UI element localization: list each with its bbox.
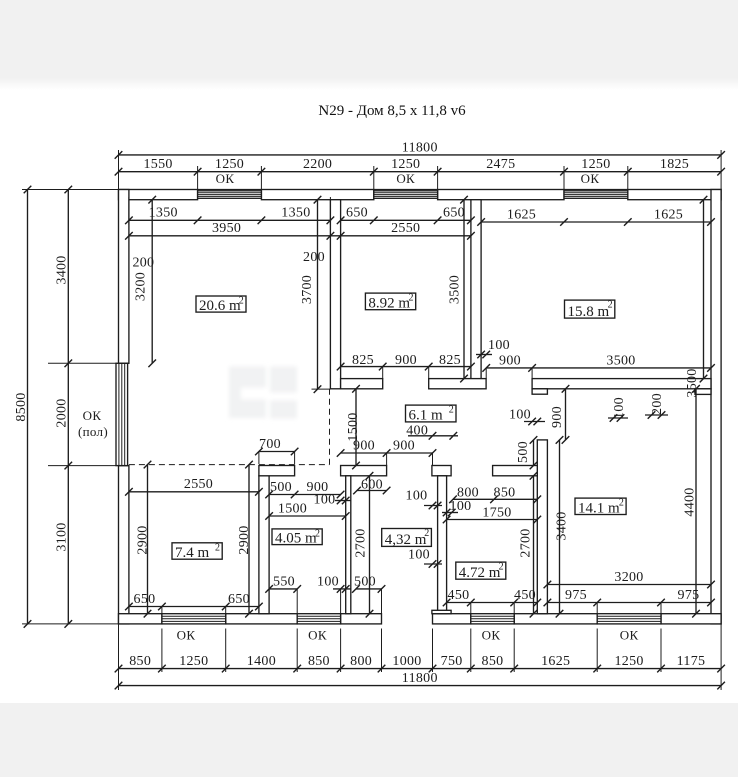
dimension row 500/900 room 4.05 north [269,494,341,496]
window OK bottom-2 (850) [297,614,340,624]
dimension row bottom segments 850/1250/1400/850/800/1000/750/850/1625/1250/1175 [119,668,722,670]
svg-text:4,32 m: 4,32 m [385,532,427,548]
svg-text:2: 2 [499,562,504,573]
dimension row top segments 1550/1250/2200/1250/2475/1250/1825 [119,171,722,173]
svg-text:ОК: ОК [620,627,639,642]
svg-text:1625: 1625 [507,207,536,222]
svg-text:1500: 1500 [346,412,361,441]
dimension 3500 room 15.8 right [703,200,705,379]
svg-text:1350: 1350 [149,206,178,221]
svg-text:15.8 m: 15.8 m [568,304,610,320]
dimension row 900/3500 below room 15.8 [486,367,711,369]
dimension 500 room 4.32 south [356,588,382,590]
svg-text:2: 2 [315,528,320,539]
svg-text:200: 200 [650,393,665,415]
svg-text:2: 2 [424,528,429,539]
svg-text:900: 900 [393,439,415,454]
svg-text:1250: 1250 [614,654,643,669]
svg-text:ОК: ОК [216,171,235,186]
dimension 8500 left [27,190,29,624]
svg-text:500: 500 [270,480,292,495]
svg-text:3400: 3400 [555,511,570,540]
svg-text:200: 200 [303,250,325,265]
svg-text:1400: 1400 [247,654,276,669]
dimension 4400 room 14.1 east [695,389,697,614]
svg-text:975: 975 [678,588,700,603]
svg-text:20.6 m: 20.6 m [199,298,241,314]
svg-text:900: 900 [353,439,375,454]
room label 15.8 m2 [565,300,615,318]
extension lines hall door 15.8 [485,368,487,379]
svg-text:2: 2 [409,293,414,304]
wall I-flange bottom between 4.32 and 4.72 [432,610,451,613]
extension lines 450-450 room 4.72 [470,603,472,614]
svg-text:900: 900 [395,353,417,368]
svg-text:1250: 1250 [391,157,420,172]
dimension 11800 bottom [119,685,722,687]
svg-text:2: 2 [619,498,624,509]
dimension row 975/975 room 14.1 south [547,602,711,604]
svg-text:2: 2 [215,542,220,553]
svg-text:4.05 m: 4.05 m [275,530,317,546]
svg-text:2700: 2700 [519,528,534,557]
svg-text:600: 600 [361,477,383,492]
bottom gray band [0,703,738,777]
dimension 600 room 4.32 north [357,490,387,492]
dimension 1750 room 4.72 [447,519,538,521]
window OK top-2 (1250) [374,189,438,191]
svg-text:1625: 1625 [654,207,683,222]
svg-text:2000: 2000 [55,398,70,427]
svg-text:ОК: ОК [581,171,600,186]
wall exterior left (lower segment) [119,466,129,624]
svg-text:850: 850 [494,485,516,500]
svg-text:1250: 1250 [179,654,208,669]
svg-text:1175: 1175 [677,654,706,669]
svg-text:3100: 3100 [55,522,70,551]
svg-text:650: 650 [134,592,156,607]
dimension 900 door to room 14.1 [565,389,567,440]
svg-text:ОК: ОК [83,408,102,423]
wall exterior left (upper segment) [119,190,129,364]
extension lines 650-650 room 7.4 [161,607,163,614]
svg-text:11800: 11800 [402,140,438,155]
extension lines room 20.6 window dims [128,197,130,225]
svg-text:100: 100 [406,488,428,503]
room label 8.92 m2 [365,293,415,310]
svg-text:7.4 m: 7.4 m [175,545,210,561]
svg-text:ОК: ОК [396,171,415,186]
wall exterior top (east segment) [628,190,721,200]
svg-text:3200: 3200 [614,570,643,585]
svg-text:500: 500 [516,441,531,463]
svg-text:2700: 2700 [354,528,369,557]
dimension row 800/850 room 4.72 north [453,498,537,500]
svg-text:ОК: ОК [308,627,327,642]
dimension row room 15.8 1625/1625 [481,221,711,223]
svg-text:1500: 1500 [278,501,307,516]
extension lines 900-900 hall dims [386,453,388,466]
svg-text:1250: 1250 [215,157,244,172]
svg-text:450: 450 [448,588,470,603]
open boundary dashed horizontal (kitchen-living) [129,464,330,466]
svg-text:650: 650 [346,206,368,221]
window OK bottom-1 (1250) [162,614,226,624]
extension lines top window edges [197,166,199,191]
wall I-flange top between 4.32 and 4.72 [432,466,451,476]
svg-text:6.1 m: 6.1 m [409,408,444,424]
wall exterior bottom (segment 1) [119,614,162,624]
svg-text:3500: 3500 [685,368,700,397]
dimension 500 and 2700 room 4.72 east [533,440,535,466]
wall between rooms 7.4 and 4.05 [259,476,269,614]
wall exterior top (segment between windows 2-3) [438,190,564,200]
svg-text:900: 900 [499,354,521,369]
extension lines bottom corners [118,624,120,690]
dimension 2550 room 7.4 [129,491,259,493]
svg-text:850: 850 [308,654,330,669]
svg-text:700: 700 [259,437,281,452]
svg-text:14.1 m: 14.1 m [578,500,620,516]
svg-text:1550: 1550 [143,157,172,172]
dimension 3200 room 14.1 south [547,584,711,586]
wall exterior top (segment between windows 1-2) [261,190,373,200]
dimension 1500 room 4.05 [269,515,346,517]
room label 20.6 m2 [196,296,246,312]
svg-text:2550: 2550 [184,477,213,492]
wall T-cap above wall 7.4/4.05 (700 piece) [259,466,295,476]
svg-text:2900: 2900 [136,525,151,554]
svg-text:ОК: ОК [482,627,501,642]
wall exterior bottom (segment 5) [514,614,597,624]
svg-text:1625: 1625 [541,654,570,669]
dimension row 825/900/825 below room 8.92 [341,366,471,368]
svg-text:8500: 8500 [14,392,29,421]
svg-text:100: 100 [612,397,627,419]
wall V1 between corridor/4.72 and room 14.1 [537,440,547,614]
svg-text:450: 450 [514,588,536,603]
svg-text:850: 850 [482,654,504,669]
wall hall north segment 3 (below room 15.8) [532,379,711,389]
dimension row 650/650 room 7.4 [129,606,259,608]
svg-text:ОК: ОК [177,627,196,642]
svg-text:650: 650 [443,206,465,221]
svg-text:8.92 m: 8.92 m [368,296,410,312]
dimension row 550/100 room 4.05 south [269,588,297,590]
svg-text:1825: 1825 [660,157,689,172]
svg-text:550: 550 [273,574,295,589]
svg-text:750: 750 [441,654,463,669]
svg-text:500: 500 [354,574,376,589]
svg-text:2900: 2900 [237,525,252,554]
svg-text:3500: 3500 [448,275,463,304]
dimension 2900 room 7.4 right [248,465,250,614]
room label 4.05 m2 [272,529,322,545]
svg-text:900: 900 [550,406,565,428]
window OK top-1 (1250) [198,189,262,191]
wall exterior bottom (segment 4, after entrance door) [433,614,471,624]
extension lines 975-975 room 14.1 [596,603,598,614]
top gray band [0,0,738,90]
svg-text:3400: 3400 [55,255,70,284]
svg-text:100: 100 [317,574,339,589]
dimension 3400 room 14.1 west [559,440,561,614]
extension lines top corners [118,150,120,190]
svg-text:825: 825 [352,353,374,368]
extension lines 700 dim [258,452,260,465]
svg-text:1350: 1350 [281,206,310,221]
wall exterior bottom (segment 2) [226,614,298,624]
dimension row room 20.6 1350/1350 [129,219,331,221]
dimension 2700 room 4.32 [369,476,371,614]
svg-text:850: 850 [129,654,151,669]
dimension row 450/450 room 4.72 south [447,602,538,604]
wall between rooms 4.05 and 4.32 [346,476,351,614]
svg-text:2: 2 [239,296,244,307]
title [0,103,738,120]
svg-text:1000: 1000 [392,654,421,669]
svg-text:3200: 3200 [134,272,149,301]
wall exterior bottom (segment 6) [661,614,721,624]
label room 6.1 [406,405,457,422]
dimension row room 8.92 650/650 [341,219,471,221]
svg-text:100: 100 [488,338,510,353]
wall exterior bottom (segment 3, up to entrance door) [341,614,382,624]
dimension room 20.6 width 3950 and room 8.92 width 2550 [129,235,331,237]
wall hall north segment 1 (below room 8.92 west of door) [341,379,383,389]
svg-text:3950: 3950 [212,221,241,236]
svg-text:4.72 m: 4.72 m [459,565,501,581]
svg-text:4400: 4400 [683,487,698,516]
room label 4.32 m2 [382,529,432,547]
extension line 500 room 4.32 [381,589,383,614]
dimension 3500 room 8.92 right [463,200,465,379]
dimension row left 3400/2000/3100 [67,190,69,624]
dimension 700 above wall cap [259,451,295,453]
extension lines 550-100 room 4.05 [296,589,298,614]
svg-text:2: 2 [608,300,613,311]
svg-text:100: 100 [509,407,531,422]
wall I-web between 4.32 and 4.72 [438,476,447,614]
window OK left (floor window 2000) [116,363,128,465]
svg-text:100: 100 [314,492,336,507]
svg-text:1750: 1750 [482,506,511,521]
wall piece 900 above room 4.32 (with jamb) [341,466,387,476]
extension lines left corners [22,189,119,191]
wall stub at NE corner of room 14.1 [695,389,711,395]
wall hall north segment 2 (between doors) [429,379,486,389]
open boundary dashed vertical (hall-living) [329,389,331,465]
window OK top-3 (1250) [564,189,628,191]
svg-text:825: 825 [439,353,461,368]
dimension 2900 room 7.4 left [147,465,149,614]
extension lines hall door 8.92 [382,367,384,379]
svg-text:2200: 2200 [303,157,332,172]
svg-text:200: 200 [132,255,154,270]
window OK bottom-3 (850) [471,614,514,624]
svg-text:3700: 3700 [300,275,315,304]
dimension 1500 hall height [355,389,357,466]
door jamb block right of hall-15.8 door [532,389,547,394]
wall exterior top (west segment) [119,190,198,200]
wall A between rooms 20.6 and 8.92 [330,200,340,389]
dimension 11800 top [119,154,722,156]
svg-text:2: 2 [449,405,454,416]
svg-text:(пол): (пол) [78,424,108,439]
room label 14.1 m2 [575,498,626,514]
svg-text:1250: 1250 [581,157,610,172]
svg-text:11800: 11800 [402,671,438,686]
dimension row 900/900 hall south [341,452,433,454]
svg-text:2550: 2550 [391,221,420,236]
svg-text:100: 100 [408,547,430,562]
window OK bottom-4 (1250) [597,614,661,624]
svg-text:800: 800 [350,654,372,669]
svg-text:975: 975 [565,588,587,603]
extension lines left window edges [48,362,129,364]
wall exterior right [711,190,721,624]
svg-text:650: 650 [228,592,250,607]
svg-text:2475: 2475 [486,157,515,172]
room label 7.4 m2 [172,543,222,559]
extension lines bottom boundaries [161,629,163,673]
wall B between rooms 8.92 and 15.8 [471,200,481,389]
wall north of room 4.72 (850 piece) [493,466,538,476]
room label 4.72 m2 [456,562,506,579]
svg-text:3500: 3500 [606,354,635,369]
